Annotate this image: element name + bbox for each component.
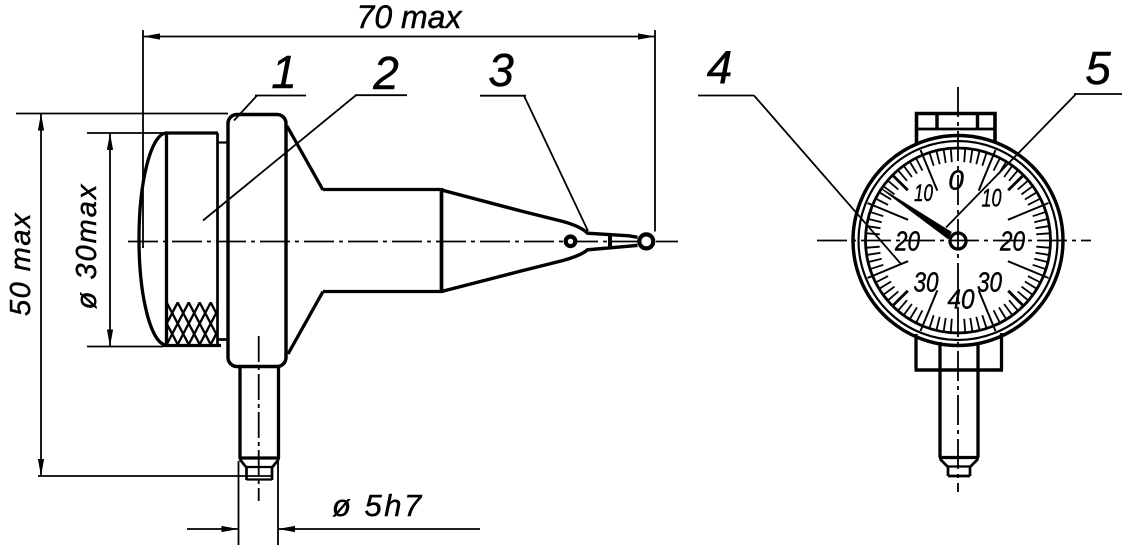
stem tip bottom — [247, 478, 273, 480]
svg-text:30: 30 — [977, 267, 1002, 298]
bezel-housing step top — [218, 141, 229, 143]
center line (left view axis) — [128, 241, 678, 243]
top clamp inner bar right — [976, 114, 979, 130]
bottom boss inner bar left — [938, 342, 941, 369]
callout 1 underline — [255, 95, 306, 97]
stem tip shoulder — [246, 466, 273, 468]
stem tip taper right (front view) — [971, 459, 979, 467]
stem left edge (left view) — [238, 367, 241, 459]
dimension 30 max extension bottom — [87, 346, 163, 348]
svg-text:10: 10 — [982, 185, 1002, 213]
callout 4 underline — [698, 95, 754, 97]
dimension 70 max line — [143, 36, 655, 38]
svg-text:3: 3 — [488, 44, 514, 96]
stem tip shoulder (front view) — [948, 465, 971, 467]
svg-text:0: 0 — [948, 165, 964, 196]
stem tip left side (front view) — [947, 467, 950, 477]
svg-text:5: 5 — [1085, 42, 1111, 94]
callout 3 leader — [524, 96, 588, 231]
dimension 5h7 line right — [278, 528, 480, 530]
bezel outer circle — [853, 136, 1063, 346]
bezel dome arc — [139, 133, 167, 345]
bezel-housing step bottom — [218, 338, 229, 341]
callout 2 leader — [203, 95, 356, 220]
bezel bottom edge — [163, 344, 221, 347]
dimension 5h7 extension left — [238, 461, 240, 545]
svg-text:30: 30 — [914, 267, 939, 298]
callout 1 leader — [234, 96, 257, 121]
callout 5 leader — [946, 94, 1076, 228]
dimension 50 max line — [40, 114, 42, 477]
dimension 70 max extension right — [654, 30, 656, 232]
bottom boss right edge — [1000, 333, 1003, 369]
cylinder right edge — [440, 188, 444, 293]
probe cone top profile — [442, 190, 638, 237]
probe cone bottom profile — [442, 245, 638, 291]
svg-text:20: 20 — [894, 226, 920, 257]
dimension 50 max extension bottom — [38, 475, 272, 477]
dimension 5h7 extension right — [277, 461, 279, 545]
svg-text:10: 10 — [914, 180, 933, 207]
stem tip bottom (front view) — [948, 475, 970, 478]
bezel front face line — [165, 133, 168, 345]
stem right edge (left view) — [277, 367, 280, 459]
svg-text:50 max: 50 max — [5, 212, 37, 316]
top clamp inner shelf — [917, 128, 996, 131]
bezel middle circle — [859, 141, 1058, 340]
dimension 30 max line — [109, 133, 111, 347]
svg-text:ø 30max: ø 30max — [71, 183, 103, 310]
top clamp outline — [917, 114, 996, 145]
dimension 50 max extension top — [16, 113, 228, 115]
svg-text:70 max: 70 max — [357, 0, 463, 35]
callout 5 underline — [1074, 93, 1122, 95]
stem bottom edge (front view) — [939, 456, 979, 459]
bezel top edge — [165, 131, 218, 134]
stem tip right side (front view) — [969, 467, 972, 477]
stem tip taper left — [240, 460, 246, 468]
dimension 30 max extension top — [87, 132, 166, 134]
pivot ring — [566, 237, 576, 247]
contact ball (element 3) — [639, 234, 653, 248]
stem right edge (front view) — [976, 370, 979, 458]
svg-text:20: 20 — [999, 226, 1025, 257]
stem tip left side — [245, 467, 248, 480]
stem tip taper left (front view) — [940, 459, 948, 467]
svg-text:1: 1 — [271, 46, 297, 98]
bottom boss bottom edge — [915, 368, 1004, 372]
dimension 5h7 line left — [187, 528, 239, 530]
stem center line (left view) — [258, 336, 260, 501]
bezel right edge — [216, 133, 219, 346]
top clamp inner bar left — [935, 114, 938, 130]
svg-text:ø 5h7: ø 5h7 — [332, 488, 424, 523]
stylus crossbar — [608, 234, 612, 249]
dial vertical center line — [957, 87, 959, 492]
stem bottom edge — [239, 456, 281, 459]
bezel inner circle — [866, 148, 1051, 333]
svg-text:2: 2 — [372, 47, 399, 99]
cone bottom slant — [288, 292, 323, 355]
cylinder top edge — [323, 188, 442, 191]
bottom boss inner bar right — [976, 342, 979, 369]
needle hub — [950, 233, 966, 249]
cone top slant — [287, 126, 323, 190]
stem left edge (front view) — [938, 370, 941, 458]
knurl hatching — [144, 302, 233, 345]
callout 3 underline — [480, 95, 526, 97]
svg-text:4: 4 — [707, 41, 733, 93]
stem tip right side — [271, 467, 274, 480]
scale ticks — [867, 149, 1049, 331]
callout 2 underline — [355, 94, 407, 96]
bottom boss left edge — [914, 334, 917, 369]
dimension 70 max extension left — [142, 30, 144, 248]
housing body (element 1) — [228, 115, 286, 367]
cylinder bottom edge — [323, 290, 442, 293]
svg-text:40: 40 — [948, 284, 975, 315]
needle (element 5) — [881, 188, 952, 240]
dial horizontal center line — [817, 240, 1091, 242]
stem tip taper right — [273, 460, 279, 468]
callout 4 leader — [754, 96, 901, 265]
